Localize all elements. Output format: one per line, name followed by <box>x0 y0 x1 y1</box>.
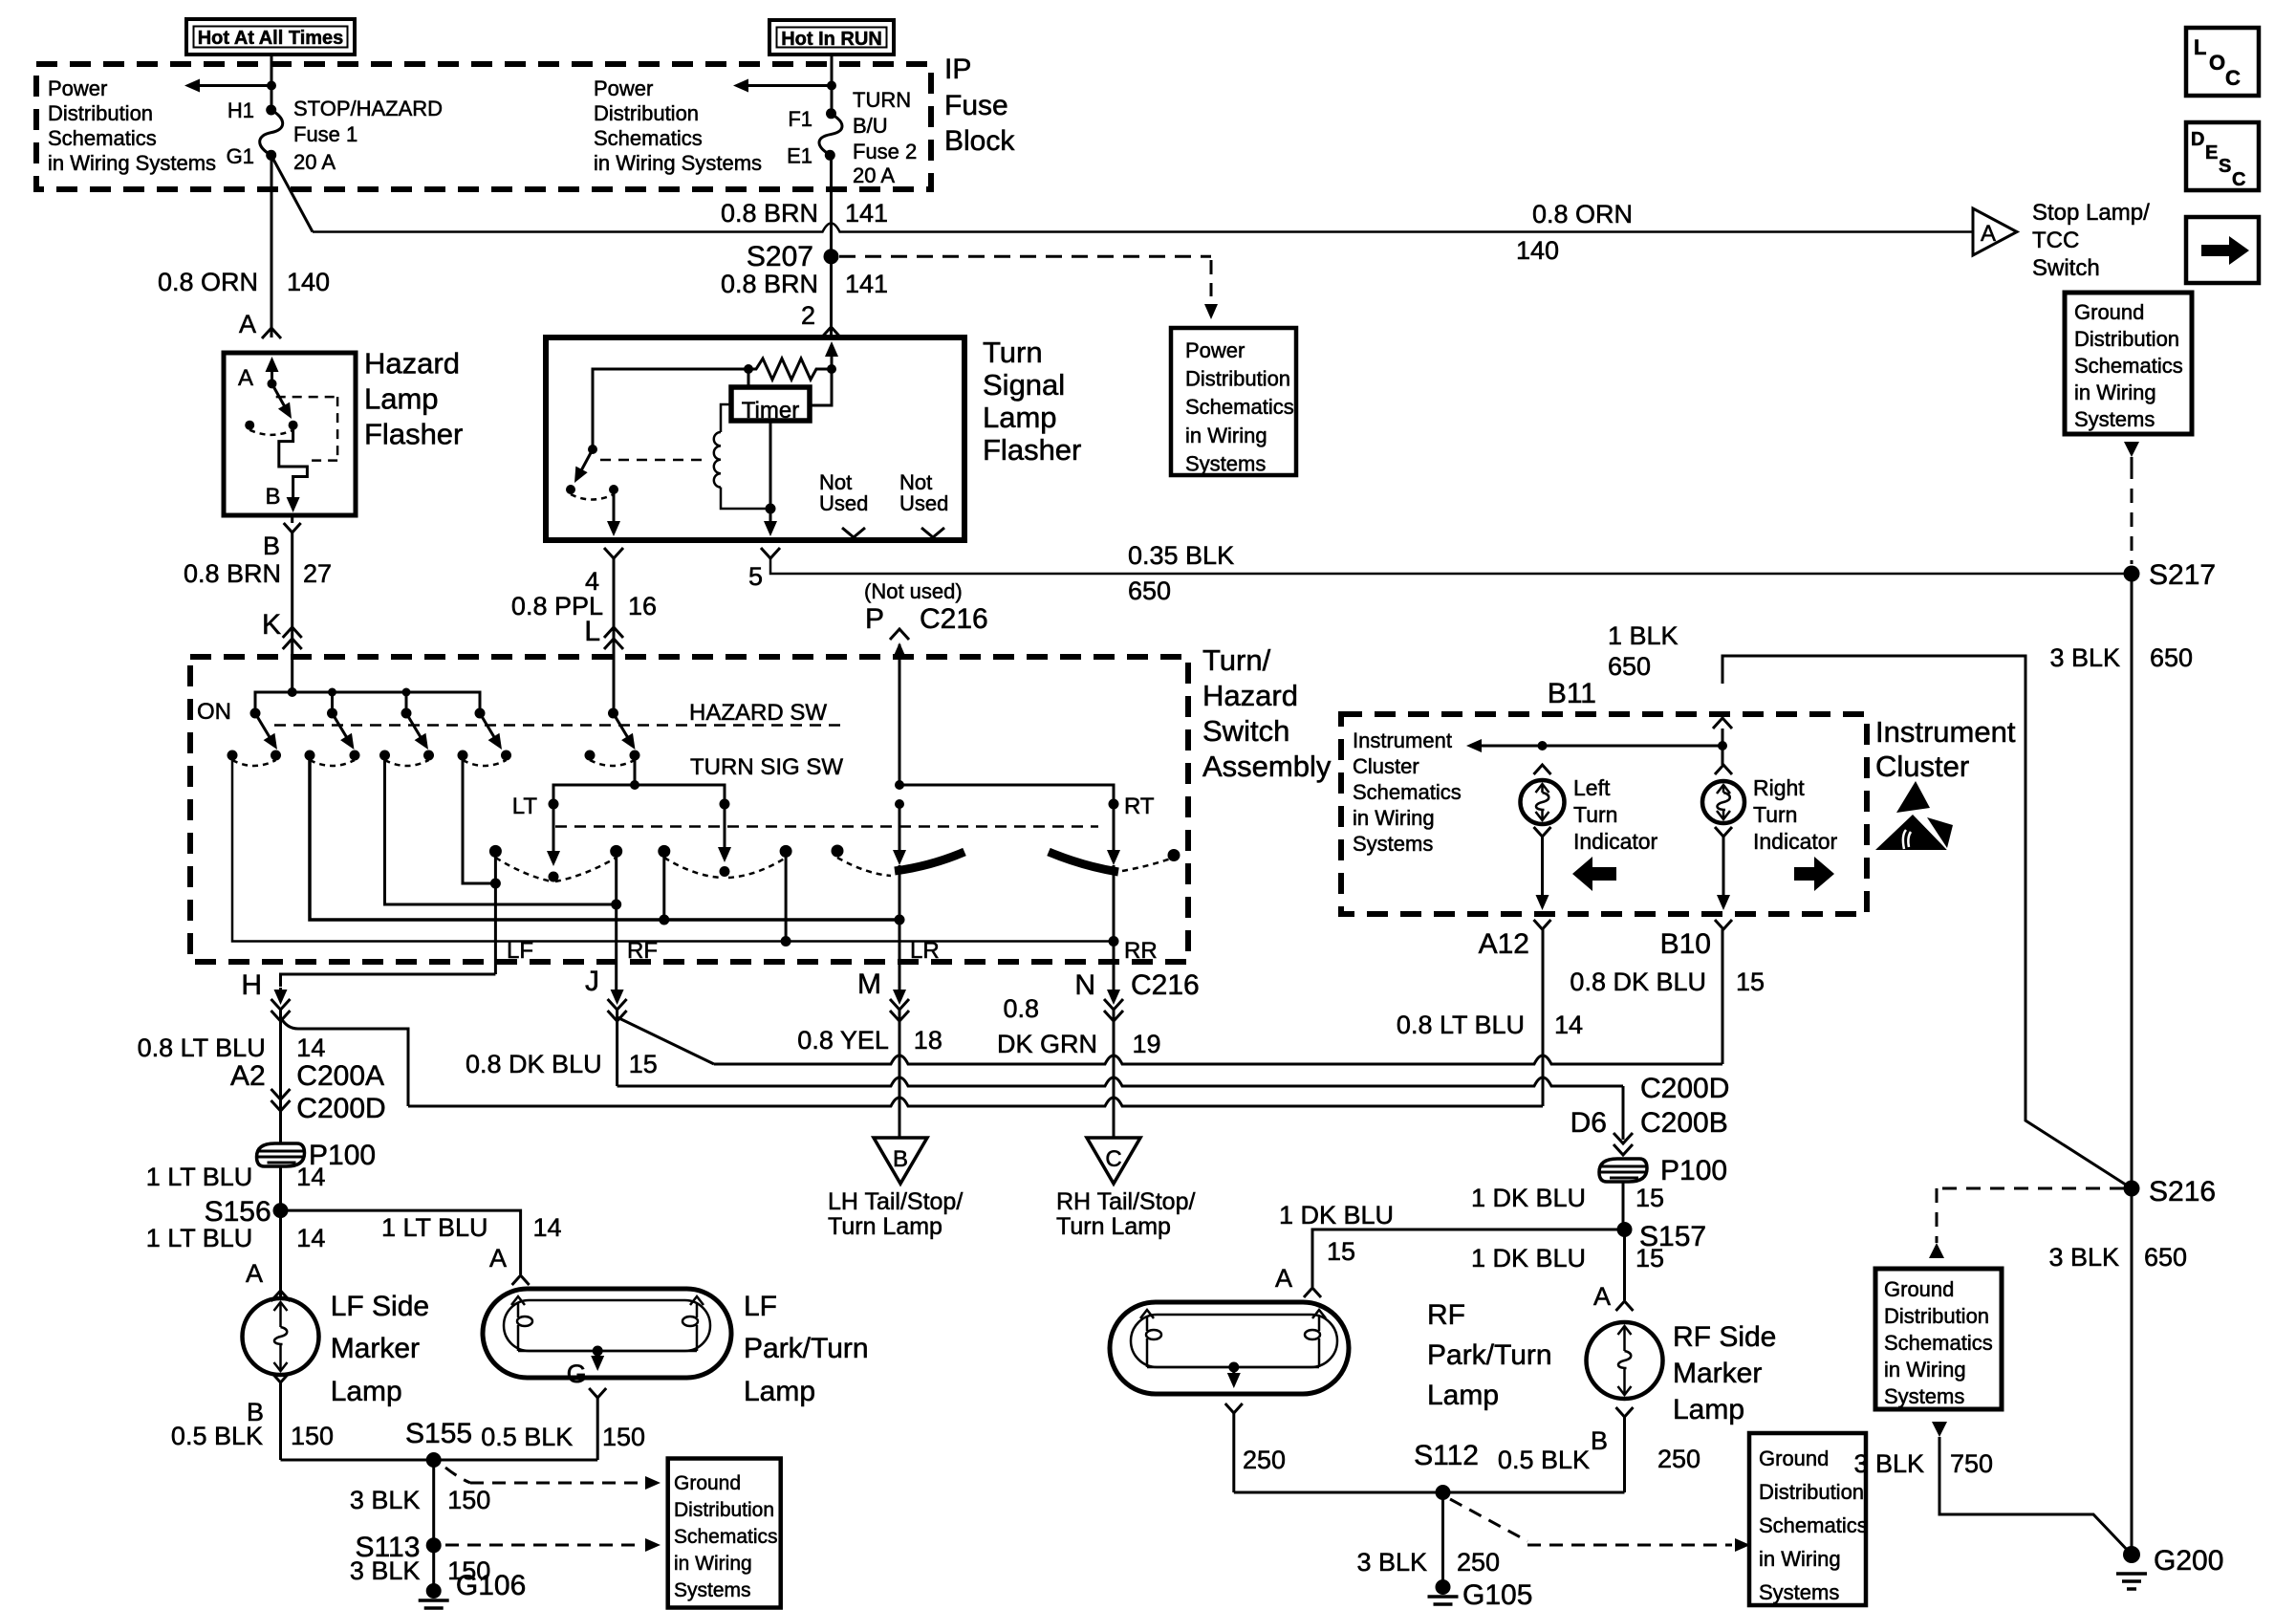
svg-text:14: 14 <box>296 1033 325 1062</box>
svg-text:20 A: 20 A <box>293 150 336 174</box>
svg-text:STOP/HAZARD: STOP/HAZARD <box>293 97 443 120</box>
svg-text:Park/Turn: Park/Turn <box>1427 1339 1552 1371</box>
svg-text:Marker: Marker <box>331 1333 420 1364</box>
svg-text:141: 141 <box>845 270 888 298</box>
svg-text:A: A <box>489 1244 507 1273</box>
svg-text:Flasher: Flasher <box>983 433 1081 467</box>
svg-text:F1: F1 <box>788 107 812 131</box>
svg-text:Cluster: Cluster <box>1353 754 1419 778</box>
svg-text:TURN: TURN <box>853 88 911 112</box>
svg-text:Switch: Switch <box>2032 255 2100 281</box>
svg-text:Indicator: Indicator <box>1573 829 1658 854</box>
svg-text:in Wiring: in Wiring <box>1884 1358 1966 1382</box>
svg-text:Schematics: Schematics <box>1353 780 1462 804</box>
svg-text:RF: RF <box>1427 1299 1465 1331</box>
svg-text:in Wiring: in Wiring <box>2074 381 2156 404</box>
svg-text:0.8 DK BLU: 0.8 DK BLU <box>1570 968 1706 996</box>
svg-text:Assembly: Assembly <box>1202 750 1332 783</box>
svg-text:150: 150 <box>291 1422 334 1450</box>
svg-text:G: G <box>567 1360 587 1388</box>
svg-text:14: 14 <box>1554 1011 1583 1039</box>
svg-text:M: M <box>857 968 881 1000</box>
svg-text:Distribution: Distribution <box>48 101 153 125</box>
svg-text:0.5 BLK: 0.5 BLK <box>1498 1446 1590 1474</box>
svg-text:A: A <box>1981 221 1996 247</box>
svg-text:Lamp: Lamp <box>331 1376 402 1407</box>
svg-text:Block: Block <box>944 125 1015 157</box>
svg-text:140: 140 <box>1516 236 1559 265</box>
svg-text:14: 14 <box>296 1224 325 1252</box>
svg-text:E: E <box>2205 142 2218 163</box>
svg-text:Fuse 2: Fuse 2 <box>853 140 917 163</box>
svg-text:Used: Used <box>819 491 868 515</box>
svg-text:Turn Lamp: Turn Lamp <box>1056 1213 1171 1240</box>
svg-text:Lamp: Lamp <box>744 1376 815 1407</box>
svg-text:Distribution: Distribution <box>2074 327 2179 351</box>
svg-text:RH Tail/Stop/: RH Tail/Stop/ <box>1056 1188 1195 1215</box>
svg-text:Turn: Turn <box>1753 802 1797 827</box>
svg-text:16: 16 <box>628 592 657 620</box>
svg-text:5: 5 <box>748 562 763 591</box>
svg-text:0.8 BRN: 0.8 BRN <box>721 270 818 298</box>
svg-text:1 LT BLU: 1 LT BLU <box>381 1213 488 1242</box>
svg-text:15: 15 <box>1635 1244 1664 1273</box>
svg-text:B11: B11 <box>1548 678 1596 709</box>
svg-text:RF: RF <box>627 938 658 964</box>
svg-text:0.35 BLK: 0.35 BLK <box>1128 541 1234 570</box>
svg-text:Hazard: Hazard <box>364 347 460 381</box>
svg-text:0.8 LT BLU: 0.8 LT BLU <box>138 1033 266 1062</box>
svg-text:Switch: Switch <box>1202 714 1289 748</box>
svg-text:Distribution: Distribution <box>1884 1304 1989 1328</box>
svg-text:Hot In RUN: Hot In RUN <box>781 29 882 50</box>
svg-text:Schematics: Schematics <box>674 1526 778 1548</box>
svg-text:D6: D6 <box>1570 1107 1607 1139</box>
svg-text:B: B <box>265 484 280 510</box>
svg-text:Cluster: Cluster <box>1875 750 1969 783</box>
svg-text:C: C <box>2225 66 2241 90</box>
svg-text:RR: RR <box>1124 938 1158 964</box>
svg-text:3 BLK: 3 BLK <box>1853 1449 1924 1478</box>
svg-text:P: P <box>865 603 884 635</box>
svg-text:19: 19 <box>1133 1030 1161 1058</box>
svg-text:Right: Right <box>1753 775 1805 800</box>
svg-text:0.8: 0.8 <box>1003 994 1039 1023</box>
svg-text:Schematics: Schematics <box>2074 354 2183 378</box>
svg-text:N: N <box>1074 969 1095 1001</box>
svg-text:0.8 DK BLU: 0.8 DK BLU <box>466 1050 602 1078</box>
svg-text:1 BLK: 1 BLK <box>1608 621 1679 650</box>
svg-text:0.8 YEL: 0.8 YEL <box>797 1026 889 1055</box>
svg-text:Hazard: Hazard <box>1202 679 1298 712</box>
svg-text:Signal: Signal <box>983 368 1065 402</box>
svg-text:14: 14 <box>296 1163 325 1191</box>
svg-text:LF: LF <box>744 1291 777 1322</box>
svg-text:in Wiring Systems: in Wiring Systems <box>594 151 762 175</box>
svg-text:0.8 ORN: 0.8 ORN <box>1532 200 1633 228</box>
svg-text:250: 250 <box>1457 1548 1500 1577</box>
svg-text:in Wiring: in Wiring <box>1353 806 1435 830</box>
svg-text:RT: RT <box>1124 794 1155 819</box>
svg-text:Distribution: Distribution <box>594 101 699 125</box>
svg-text:S155: S155 <box>405 1418 472 1449</box>
svg-text:Systems: Systems <box>2074 407 2155 431</box>
svg-text:C: C <box>2232 169 2245 190</box>
svg-text:Fuse 1: Fuse 1 <box>293 122 357 146</box>
svg-text:3 BLK: 3 BLK <box>350 1486 421 1514</box>
svg-text:B: B <box>263 532 280 560</box>
svg-text:IP: IP <box>944 54 971 85</box>
svg-text:C200A: C200A <box>296 1060 384 1092</box>
svg-text:650: 650 <box>1608 652 1651 681</box>
svg-text:Used: Used <box>899 491 948 515</box>
svg-text:H: H <box>241 969 262 1001</box>
svg-text:Stop Lamp/: Stop Lamp/ <box>2032 200 2150 226</box>
svg-text:L: L <box>2194 35 2206 59</box>
svg-text:0.8 BRN: 0.8 BRN <box>184 559 281 588</box>
svg-text:150: 150 <box>447 1486 490 1514</box>
svg-text:15: 15 <box>1327 1237 1355 1266</box>
svg-text:3 BLK: 3 BLK <box>2049 643 2120 672</box>
svg-text:P100: P100 <box>1660 1155 1727 1186</box>
svg-text:LT: LT <box>512 794 538 819</box>
svg-text:27: 27 <box>303 559 332 588</box>
svg-text:DK GRN: DK GRN <box>997 1030 1097 1058</box>
svg-text:in Wiring: in Wiring <box>674 1553 752 1575</box>
svg-text:1 DK BLU: 1 DK BLU <box>1279 1201 1394 1229</box>
svg-text:3 BLK: 3 BLK <box>1356 1548 1427 1577</box>
svg-text:A: A <box>1275 1264 1292 1293</box>
svg-text:C200D: C200D <box>1640 1073 1729 1104</box>
svg-text:650: 650 <box>2144 1243 2187 1272</box>
svg-text:C200D: C200D <box>296 1093 385 1124</box>
svg-text:3 BLK: 3 BLK <box>350 1556 421 1585</box>
svg-text:B10: B10 <box>1660 928 1711 960</box>
svg-text:Indicator: Indicator <box>1753 829 1838 854</box>
svg-text:LR: LR <box>910 938 940 964</box>
svg-text:Ground: Ground <box>2074 300 2144 324</box>
svg-text:Power: Power <box>1185 338 1245 362</box>
svg-text:2: 2 <box>801 301 815 330</box>
svg-text:C216: C216 <box>1131 969 1200 1001</box>
svg-text:Park/Turn: Park/Turn <box>744 1333 869 1364</box>
svg-text:20 A: 20 A <box>853 163 895 187</box>
svg-text:Timer: Timer <box>742 398 799 424</box>
svg-text:650: 650 <box>1128 577 1171 605</box>
svg-text:1 DK BLU: 1 DK BLU <box>1471 1244 1586 1273</box>
svg-text:140: 140 <box>287 268 330 296</box>
svg-text:in Wiring: in Wiring <box>1759 1547 1841 1571</box>
svg-text:J: J <box>585 966 599 997</box>
svg-text:TURN SIG SW: TURN SIG SW <box>690 754 843 780</box>
svg-text:Distribution: Distribution <box>1185 367 1290 391</box>
svg-text:Instrument: Instrument <box>1353 729 1452 752</box>
svg-text:Schematics: Schematics <box>594 126 703 150</box>
svg-text:Schematics: Schematics <box>1185 395 1294 419</box>
svg-text:G106: G106 <box>456 1570 526 1601</box>
svg-text:250: 250 <box>1657 1445 1700 1473</box>
svg-text:Schematics: Schematics <box>1884 1331 1993 1355</box>
svg-text:S: S <box>2219 156 2231 177</box>
svg-text:in Wiring Systems: in Wiring Systems <box>48 151 216 175</box>
svg-text:Lamp: Lamp <box>364 382 439 416</box>
svg-text:S216: S216 <box>2149 1176 2216 1207</box>
svg-text:Left: Left <box>1573 775 1611 800</box>
svg-text:Ground: Ground <box>674 1472 741 1494</box>
svg-text:0.8 ORN: 0.8 ORN <box>158 268 258 296</box>
svg-text:0.5 BLK: 0.5 BLK <box>481 1423 573 1451</box>
svg-text:Lamp: Lamp <box>1673 1394 1744 1425</box>
svg-text:Turn/: Turn/ <box>1202 643 1271 677</box>
svg-text:Turn: Turn <box>1573 802 1617 827</box>
svg-text:Power: Power <box>594 76 653 100</box>
svg-text:C: C <box>1105 1146 1121 1172</box>
svg-text:1 LT BLU: 1 LT BLU <box>146 1163 253 1191</box>
svg-text:1 DK BLU: 1 DK BLU <box>1471 1184 1586 1212</box>
svg-text:Flasher: Flasher <box>364 418 463 451</box>
svg-text:Hot At All Times: Hot At All Times <box>198 28 344 49</box>
svg-text:15: 15 <box>629 1050 658 1078</box>
svg-text:Systems: Systems <box>1884 1384 1964 1408</box>
svg-text:S217: S217 <box>2149 559 2216 591</box>
svg-text:H1: H1 <box>227 98 254 122</box>
svg-text:A2: A2 <box>230 1060 266 1092</box>
svg-text:Systems: Systems <box>1353 832 1433 856</box>
svg-text:D: D <box>2191 129 2204 150</box>
svg-text:Distribution: Distribution <box>674 1499 774 1521</box>
svg-text:K: K <box>262 609 281 641</box>
svg-text:Fuse: Fuse <box>944 90 1008 121</box>
svg-text:HAZARD SW: HAZARD SW <box>689 700 827 726</box>
svg-text:LH Tail/Stop/: LH Tail/Stop/ <box>828 1188 963 1215</box>
svg-text:0.5 BLK: 0.5 BLK <box>171 1422 263 1450</box>
svg-text:Ground: Ground <box>1759 1447 1829 1470</box>
svg-text:A: A <box>238 365 253 391</box>
svg-text:14: 14 <box>533 1213 562 1242</box>
svg-text:G200: G200 <box>2154 1545 2223 1577</box>
svg-text:L: L <box>584 616 600 647</box>
svg-text:0.8 LT BLU: 0.8 LT BLU <box>1397 1011 1525 1039</box>
svg-text:250: 250 <box>1243 1446 1286 1474</box>
svg-text:Systems: Systems <box>674 1579 751 1601</box>
svg-text:O: O <box>2209 51 2225 75</box>
svg-text:RF Side: RF Side <box>1673 1321 1776 1353</box>
svg-text:G1: G1 <box>227 144 254 168</box>
svg-text:Schematics: Schematics <box>1759 1513 1868 1537</box>
svg-text:C216: C216 <box>920 603 988 635</box>
svg-text:A: A <box>246 1259 263 1288</box>
svg-text:LF Side: LF Side <box>331 1291 429 1322</box>
svg-text:1 LT BLU: 1 LT BLU <box>146 1224 253 1252</box>
svg-text:A: A <box>1593 1282 1611 1311</box>
svg-text:Ground: Ground <box>1884 1277 1954 1301</box>
svg-text:B/U: B/U <box>853 114 888 138</box>
svg-text:Lamp: Lamp <box>1427 1380 1499 1411</box>
svg-text:Turn: Turn <box>983 336 1043 369</box>
svg-text:15: 15 <box>1635 1184 1664 1212</box>
svg-text:650: 650 <box>2150 643 2193 672</box>
svg-text:A12: A12 <box>1479 928 1529 960</box>
svg-text:S112: S112 <box>1414 1440 1479 1471</box>
svg-text:18: 18 <box>914 1026 942 1055</box>
svg-text:Systems: Systems <box>1759 1580 1839 1604</box>
svg-text:G105: G105 <box>1462 1579 1532 1610</box>
svg-text:ON: ON <box>197 699 231 725</box>
svg-text:Turn Lamp: Turn Lamp <box>828 1213 942 1240</box>
svg-text:S207: S207 <box>747 241 813 272</box>
svg-text:B: B <box>1591 1426 1608 1455</box>
svg-text:C200B: C200B <box>1640 1107 1728 1139</box>
svg-text:E1: E1 <box>787 144 812 168</box>
svg-text:0.8 BRN: 0.8 BRN <box>721 199 818 228</box>
svg-text:Power: Power <box>48 76 107 100</box>
svg-text:15: 15 <box>1736 968 1765 996</box>
svg-text:Systems: Systems <box>1185 451 1266 475</box>
svg-text:150: 150 <box>602 1423 645 1451</box>
svg-text:A: A <box>239 310 256 338</box>
svg-text:Marker: Marker <box>1673 1358 1762 1389</box>
svg-text:Schematics: Schematics <box>48 126 157 150</box>
svg-text:3 BLK: 3 BLK <box>2048 1243 2119 1272</box>
svg-text:B: B <box>893 1146 908 1172</box>
svg-text:Instrument: Instrument <box>1875 715 2016 749</box>
svg-text:141: 141 <box>845 199 888 228</box>
svg-text:Lamp: Lamp <box>983 401 1057 434</box>
svg-text:LF: LF <box>507 938 533 964</box>
svg-text:in Wiring: in Wiring <box>1185 424 1267 447</box>
svg-text:TCC: TCC <box>2032 228 2079 253</box>
svg-text:Distribution: Distribution <box>1759 1480 1864 1504</box>
svg-text:(Not used): (Not used) <box>864 579 963 603</box>
svg-text:750: 750 <box>1950 1449 1993 1478</box>
